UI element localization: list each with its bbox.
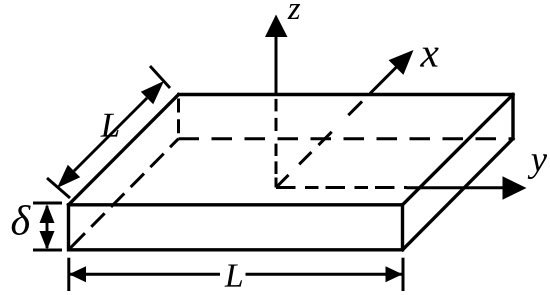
- dimension delta bottom tick: [33, 249, 62, 252]
- dimension L (bottom) left tick: [67, 258, 70, 291]
- dimension L (top-left) upper arrowhead: [141, 81, 164, 104]
- z-axis hidden segment (dashed, from origin up to top face): [275, 96, 278, 188]
- dimension L (top-left) lower arrowhead: [57, 165, 80, 188]
- dimension L (bottom) right tick: [402, 258, 405, 291]
- dimension L (bottom) shaft left part: [69, 273, 220, 276]
- y-axis hidden segment (dashed, origin rightwards): [276, 186, 407, 189]
- plate front bottom edge D'-C': [67, 248, 404, 251]
- dimension L (bottom) label: [225, 265, 243, 287]
- z-axis solid shaft: [275, 37, 278, 96]
- plate back right vertical edge B-B': [511, 93, 514, 140]
- dimension L (top-left) label: [100, 114, 118, 137]
- y-axis label y: [528, 154, 547, 179]
- x-axis arrowhead: [389, 50, 414, 75]
- y-axis solid shaft: [407, 186, 505, 189]
- dimension L (bottom) shaft right part: [246, 273, 403, 276]
- hidden bottom back edge A'-B' (dashed): [179, 137, 514, 140]
- plate right face bottom edge C'-B': [401, 138, 514, 251]
- x-axis solid shaft: [370, 66, 398, 94]
- plate top back edge A-B: [177, 93, 515, 96]
- dimension delta top tick: [33, 202, 62, 205]
- dimension L (top-left) lower tick: [47, 178, 70, 198]
- dimension L (bottom) left arrowhead: [69, 266, 86, 282]
- plate front top edge D-C: [67, 203, 404, 206]
- hidden bottom left edge A'-D' (dashed): [69, 139, 179, 250]
- x-axis label x: [420, 48, 439, 67]
- dimension delta shaft: [46, 206, 49, 248]
- dimension L (top-left) shaft: [74, 98, 147, 171]
- dimension L (bottom) right arrowhead: [386, 266, 403, 282]
- z-axis arrowhead: [265, 15, 288, 38]
- hidden back left vertical edge A-A' (dashed): [177, 99, 180, 139]
- x-axis hidden segment (dashed, origin to top face crossing): [276, 95, 369, 188]
- plate front left vertical edge D-D': [67, 203, 70, 251]
- plate front right vertical edge C-C': [401, 203, 404, 251]
- plate top face left edge A-D: [67, 93, 179, 205]
- plate top face right edge C-B: [401, 93, 514, 205]
- dimension L (top-left) upper tick: [150, 66, 170, 88]
- dimension delta top arrowhead: [40, 204, 55, 223]
- dimension delta label: [12, 205, 31, 235]
- z-axis label z: [288, 4, 301, 19]
- dimension delta bottom arrowhead: [40, 231, 55, 250]
- y-axis arrowhead: [503, 176, 527, 199]
